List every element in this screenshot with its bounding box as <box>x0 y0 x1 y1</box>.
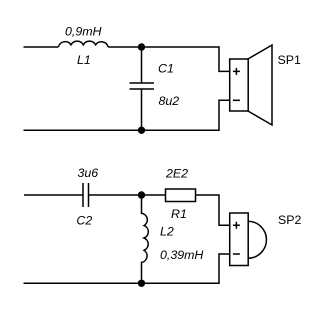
svg-text:SP2: SP2 <box>278 213 302 227</box>
svg-text:3u6: 3u6 <box>78 166 99 180</box>
svg-text:0,39mH: 0,39mH <box>160 248 203 262</box>
svg-text:R1: R1 <box>171 207 187 221</box>
svg-text:L2: L2 <box>160 224 174 238</box>
svg-text:C2: C2 <box>76 214 92 228</box>
svg-text:L1: L1 <box>77 53 91 67</box>
svg-text:2E2: 2E2 <box>165 166 188 180</box>
svg-text:C1: C1 <box>158 62 174 76</box>
svg-text:0,9mH: 0,9mH <box>65 25 102 39</box>
svg-text:8u2: 8u2 <box>159 94 180 108</box>
svg-text:SP1: SP1 <box>278 53 302 67</box>
